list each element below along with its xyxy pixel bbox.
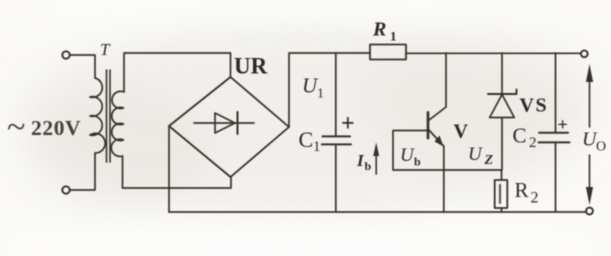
- svg-text:2: 2: [529, 135, 537, 151]
- svg-text:VS: VS: [520, 95, 549, 117]
- svg-text:U: U: [400, 145, 415, 166]
- svg-text:220V: 220V: [31, 116, 81, 140]
- svg-text:b: b: [414, 155, 421, 169]
- svg-text:b: b: [365, 159, 372, 173]
- svg-text:1: 1: [317, 87, 324, 102]
- svg-text:UR: UR: [234, 54, 268, 79]
- svg-text:1: 1: [313, 139, 321, 155]
- svg-text:U: U: [468, 144, 483, 165]
- svg-text:T: T: [100, 40, 111, 59]
- svg-text:Z: Z: [484, 153, 494, 168]
- svg-text:~: ~: [7, 109, 25, 146]
- svg-text:C: C: [513, 124, 527, 148]
- svg-text:+: +: [341, 111, 355, 137]
- svg-text:1: 1: [390, 29, 397, 44]
- svg-text:R: R: [372, 19, 386, 41]
- svg-text:C: C: [299, 127, 314, 152]
- svg-text:+: +: [558, 115, 568, 135]
- svg-text:O: O: [596, 140, 606, 155]
- svg-text:V: V: [454, 121, 469, 143]
- svg-text:2: 2: [531, 190, 539, 207]
- svg-text:R: R: [515, 178, 529, 202]
